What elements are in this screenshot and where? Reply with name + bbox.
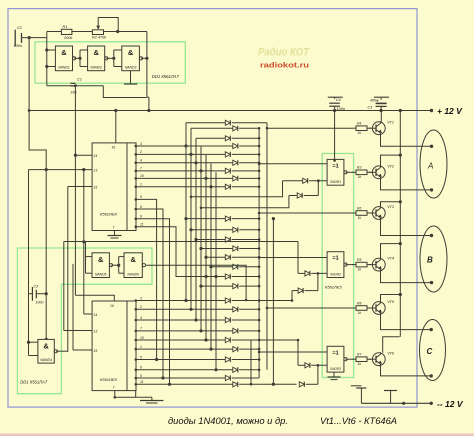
node nand5 feed [82,240,85,243]
node C2 junction [28,36,31,39]
svg-text:10: 10 [140,174,144,178]
ellipse output C [420,320,446,381]
nand gate NAND4 [38,339,58,363]
node riser 3 g2 [194,238,197,241]
node rail C3el [380,109,383,112]
svg-text:&: & [61,48,67,57]
svg-text:R2 470k: R2 470k [92,36,107,40]
diode VD3 [196,136,260,141]
node clock top [74,84,77,87]
wire riser 1 [185,123,187,301]
node R4 feed [266,127,269,130]
svg-text:R7: R7 [357,353,361,357]
diode VD10 [186,216,260,221]
node XNOR1 vdd [333,159,336,162]
svg-text:DD1 К561ЛА7: DD1 К561ЛА7 [20,380,48,385]
wire R2 to corner [104,31,147,33]
wire NAND4 in bar [29,342,38,355]
svg-text:VT1: VT1 [387,120,394,124]
diode VD22 [136,337,261,342]
wire pin13 riser down [83,170,85,314]
counter DD2 K561IE8 [92,143,136,231]
pin 2 IC1 out [135,150,143,156]
svg-text:A: A [427,162,433,171]
node -12 terminal [430,402,433,405]
bottom edge strip [0,434,474,437]
node riser 6 ic2 [209,348,212,351]
diode VD8 [136,176,261,181]
node riser 4 g2 [199,247,202,250]
svg-text:15: 15 [94,186,98,190]
diode VD23 [136,347,261,352]
diode VD18 [136,298,261,303]
svg-text:&: & [128,48,134,57]
pin 7 IC2 out [135,327,143,333]
svg-text:1k: 1k [358,216,362,220]
wire NAND5 out [111,264,119,266]
node VT2 col [399,154,402,157]
svg-text:К561ЛЕ5: К561ЛЕ5 [325,285,342,290]
xnor3 to R7 wire [346,358,354,360]
svg-text:C3: C3 [368,106,373,110]
diode VD13 [201,246,260,251]
nand gate NAND2 [88,46,108,71]
wire R8 feed [267,307,352,309]
pin 7 IC2 [113,386,115,398]
svg-text:100n: 100n [36,301,44,305]
svg-text:2: 2 [139,305,142,309]
node rail C4 [333,109,336,112]
wire XNOR2 in1 [259,257,327,259]
svg-text:+: + [377,98,380,103]
node R8 feed [266,307,269,310]
node riser 1 g2 [184,217,187,220]
svg-text:7: 7 [113,226,115,230]
svg-text:1k: 1k [358,268,362,272]
svg-text:NAND2: NAND2 [90,66,102,70]
svg-text:R8: R8 [357,301,361,305]
svg-text:1k: 1k [358,311,362,315]
potentiometer R2 [92,30,107,40]
wire nand5 in bar [86,242,93,273]
wire +12 bus vertical [399,111,401,337]
pin 11g IC2 [135,391,137,398]
ground IC1 [108,236,122,239]
ellipse output B [420,226,447,292]
node riser 5 ic2 [204,338,207,341]
svg-text:5: 5 [140,355,142,359]
wire oscillator top [47,31,62,33]
wire VT3 collector [381,202,401,207]
wire VT2 collector [381,155,401,166]
node B bottom [430,281,433,284]
diode VD15 [211,264,260,269]
wire R2 feedback loop [98,18,118,32]
wire oscillator left vertical [46,32,48,86]
wire oscillator bottom [47,85,104,87]
pin 1 IC2 out [135,345,143,351]
svg-text:2: 2 [139,150,142,154]
pin 15 IC2 [73,349,97,353]
pin 2 IC2 out [135,305,143,311]
wire NAND3 out [141,57,147,59]
node NAND2 in [78,57,81,60]
pin 5 IC2 out [135,355,143,361]
wire VD29 tail [259,291,292,301]
wire cathode bus 2 [266,123,268,370]
wire riser 2 [190,128,192,309]
diode VD1 [186,120,267,125]
svg-text:R5: R5 [357,258,361,262]
nand gate NAND3 [122,46,143,71]
pin 3 IC2 out [135,296,143,302]
wire +12V rail [29,110,431,112]
wire VT4 collector [381,244,401,259]
svg-text:3: 3 [140,142,142,146]
wire reset vertical A [28,170,30,343]
wire R6 feed [259,212,352,214]
node VD26 tail [190,196,193,199]
wire VT6 collector [383,337,400,353]
green box DD1 oscillator [35,42,185,83]
svg-text:9: 9 [140,215,142,219]
node riser 5 ic1 [204,177,207,180]
ground XNOR3 [328,372,341,380]
node riser 1 ic2 [184,299,187,302]
wire riser 3 [195,138,197,320]
xnor gate XNOR1 [327,159,347,185]
node osc rail junction [147,109,150,112]
svg-text:13: 13 [94,330,98,334]
diode VD25 [136,367,261,372]
wire R6 to VT3 [351,212,353,214]
node NAND4 top [45,338,48,341]
diode VD19 [136,307,261,312]
svg-text:200k: 200k [63,36,73,40]
wire pin5 drop [136,199,157,359]
diode VD30 [298,363,327,368]
svg-text:13: 13 [94,169,98,173]
pin 1 IC1 out [135,183,143,189]
diode VD33 [136,375,259,380]
wire IC2 pin16 feed [75,295,114,301]
wire nand6 out riser [72,264,74,350]
xnor gate XNOR2 [327,252,347,278]
svg-text:7: 7 [113,386,115,390]
wire left vertical C2 down [29,38,46,340]
svg-text:=1: =1 [332,350,338,356]
svg-text:14: 14 [94,154,98,158]
wire VD28 tail [297,242,299,274]
wire VT6 emitter [381,366,432,376]
diode VD34 [136,382,318,387]
xnor gate XNOR3 [327,346,347,372]
node pin5 drop [155,358,158,361]
node riser 4 ic2 [199,329,202,332]
pin 10 IC2 out [135,336,144,342]
svg-text:R1: R1 [63,25,68,29]
pin 4 IC1 out [135,159,143,165]
node mid v1 [245,299,248,302]
svg-text:DD1 К561ЛА7: DD1 К561ЛА7 [152,74,180,79]
resistor R7 [352,353,371,367]
svg-text:9: 9 [140,374,142,378]
node -12 a [402,402,405,405]
svg-text:VT5: VT5 [387,300,395,304]
node riser 6 g2 [209,265,212,268]
node NAND3 out junction [145,57,148,60]
svg-text:B: B [427,256,433,265]
node B top [430,234,433,237]
wire oscillator right vertical [146,32,148,97]
svg-text:C1: C1 [77,78,82,82]
transistor VT1 [369,120,394,135]
wire mid vertical 2 [250,340,252,384]
node g2r7 join [204,275,207,278]
wire R1 to R2 [72,31,93,33]
node A top [430,145,433,148]
wire clock riser [74,86,76,296]
node NAND3 in [112,57,115,60]
svg-text:XNOR2: XNOR2 [329,272,341,276]
wire VT3 emitter [381,220,432,236]
pin 16 IC1 [112,111,116,150]
wire VD31 to in2 [317,365,319,384]
pin 13 IC1 [29,169,98,173]
pin 4 IC2 out [135,316,143,322]
svg-text:1: 1 [140,183,142,187]
wire NAND6 out [146,265,246,300]
node riser 7 g2 [214,275,217,278]
svg-text:C3: C3 [34,285,39,289]
diode VD26 [283,178,328,183]
svg-text:6: 6 [140,205,142,209]
transistor VT6 [369,351,395,366]
svg-text:14: 14 [94,313,98,317]
wire nand5 top feed [64,241,298,243]
pin 14 IC1 [75,154,97,158]
node C bottom [430,374,433,377]
pin 10 IC1 out [135,174,144,180]
diode VD16 [206,274,260,279]
wire VT2 emitter [381,179,432,190]
wire VD27 to in2 [317,181,319,196]
diode VD9 [136,184,261,189]
svg-text:4: 4 [140,159,142,163]
node NAND4 in1 [27,341,30,344]
transistor VT5 [369,300,395,315]
wire oscillator out jog [103,86,147,98]
wire riser 7 [215,172,217,369]
svg-text:R3: R3 [357,166,361,170]
wire R2 wiper arrow [96,18,100,30]
nand gate NAND5 [92,253,113,278]
svg-text:R6: R6 [357,206,361,210]
wire R4 feed [267,127,352,129]
node rail left end [28,109,31,112]
wire right collector vertical [272,219,274,385]
pin 11 IC2 out [135,380,144,386]
node rc3 [272,383,275,386]
node riser 3 ic2 [194,318,197,321]
transistor VT2 [369,164,394,179]
wire -12 T bar [356,388,366,403]
svg-text:NAND6: NAND6 [127,273,139,277]
capacitor C1 [70,78,82,95]
pin 6 IC2 out [135,366,143,372]
svg-text:7: 7 [140,167,142,171]
node VT3 col [399,200,402,203]
node rail bus [399,109,402,112]
svg-text:диоды 1N4001, можно и др.: диоды 1N4001, можно и др. [168,416,288,427]
node R6 feed [258,212,261,215]
wire C2 to NAND1 column [29,37,47,39]
svg-text:&: & [98,255,104,264]
wire VD26 tail [191,181,283,197]
svg-text:VT4: VT4 [387,257,394,261]
svg-text:radiokot.ru: radiokot.ru [260,62,309,69]
ground NAND3 [124,71,137,84]
wire -12V rail [361,402,431,404]
diode VD29 [292,288,318,293]
node NAND1 in1 [45,48,48,51]
wire pin15 riser [67,187,69,352]
svg-text:NAND1: NAND1 [58,66,70,70]
resistor R5 [352,258,371,272]
resistor R6 [352,206,371,220]
svg-text:11: 11 [140,380,144,384]
svg-text:15: 15 [94,349,98,353]
wire cathode bus 1 [258,128,260,378]
svg-text:C: C [427,347,433,356]
node rail IC1 [114,109,117,112]
svg-text:XNOR1: XNOR1 [329,180,341,184]
node riser 7 ic2 [214,368,217,371]
wire pin9 drop [136,219,170,384]
svg-text:100n: 100n [337,107,345,111]
capacitor C2 [14,26,30,48]
ellipse output A [420,130,447,198]
wire NAND2 input bar [80,50,88,67]
wire XNOR1 in1 [259,163,327,165]
node riser 3 ic1 [194,161,197,164]
resistor R1 [61,25,73,40]
transistor VT4 [369,257,394,272]
nand gate NAND6 [124,253,145,278]
node VT5 col [399,293,402,296]
wire nand5 feed riser [63,259,65,330]
diode VD28 [298,271,327,276]
wire pin11 drop [136,227,206,277]
diode VD20 [136,317,261,322]
svg-text:3: 3 [140,296,142,300]
svg-text:Радио КОТ: Радио КОТ [258,47,310,59]
node mid v2 [250,383,253,386]
svg-text:1: 1 [140,345,142,349]
capacitor C3 electrolytic [368,97,390,110]
node A bottom [430,188,433,191]
blue border frame [8,9,417,408]
wire NAND1 in1 stub [47,49,56,51]
node riser 4 ic1 [199,169,202,172]
node C3b junction [45,292,48,295]
wire osc to rail [147,97,149,111]
svg-text:&: & [93,48,99,57]
wire VT5 collector [381,295,401,302]
wire VD27 tail [201,196,289,208]
svg-text:6: 6 [140,366,142,370]
node pin6 drop [161,376,164,379]
pin 14 IC2 [84,313,98,317]
wire XNOR1 vdd [334,111,336,160]
svg-text:4: 4 [140,316,142,320]
svg-text:1k: 1k [358,362,362,366]
pin 11 IC1 out [135,223,144,229]
diode VD7 [136,168,261,173]
resistor R4 [352,122,371,136]
wire nand5 left [63,242,65,260]
svg-text:VT6: VT6 [387,351,395,355]
svg-text:16: 16 [112,146,116,150]
pin 7 IC1 [113,226,115,236]
node riser 6 ic1 [209,185,212,188]
resistor R3 [352,166,371,180]
node NAND5 out [117,264,120,267]
diode VD12 [196,237,260,242]
node XNOR2 in1 bus [258,256,261,259]
svg-text:Vt1...Vt6 - КТ646А: Vt1...Vt6 - КТ646А [320,416,397,427]
wire NAND6 in bar [119,257,124,274]
node rc1 [272,217,275,220]
node NAND1 in2 [45,65,48,68]
svg-text:NAND5: NAND5 [95,273,107,277]
node XNOR1 in1 bus [258,163,261,166]
node pin7 IC2 [114,396,117,399]
wire VD29 to in2 [317,273,319,290]
svg-text:NAND4: NAND4 [40,358,52,362]
node g2r8 join [199,285,202,288]
pin 7 IC1 out [135,167,143,173]
ground IC2 [140,397,164,403]
node VT4 col [399,242,402,245]
diode VD24 [136,357,261,362]
node XNOR3 in1 bus [258,351,261,354]
svg-text:-- 12 V: -- 12 V [437,399,464,409]
wire VT1 collector [380,111,382,122]
transistor VT3 [369,205,395,220]
node pin13 left [45,168,48,171]
svg-text:7: 7 [140,327,142,331]
xnor2 to R5 wire [346,264,354,266]
pin 6 IC1 out [135,205,143,211]
node R2 right [116,30,119,33]
wire VT5 emitter [381,315,432,330]
wire VT1 emitter [381,135,432,147]
diode VD11 [191,227,260,232]
diode VD6 [136,160,261,165]
diode VD17 [201,284,260,289]
wire riser 5 [205,155,207,340]
svg-text:R4: R4 [357,122,361,126]
wire NAND1 in2 stub [47,66,56,68]
pin 5 IC1 out [135,195,143,201]
svg-text:+ 12 V: + 12 V [437,106,463,116]
svg-text:К561ИЕ8: К561ИЕ8 [100,377,118,382]
capacitor C4 [328,97,345,111]
pin 15 IC1 [68,186,98,190]
wire pin6 drop [136,209,163,378]
node riser 2 ic2 [189,308,192,311]
